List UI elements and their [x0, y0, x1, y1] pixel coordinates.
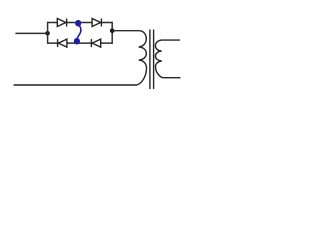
node right bridge junction: [110, 28, 115, 33]
wire input lead left: [15, 32, 47, 34]
wire bottom rail: [48, 42, 113, 44]
wire right vertical of bridge: [111, 22, 113, 44]
wire bottom return rail: [14, 84, 138, 86]
diode D1 top-left (pointing right): [57, 19, 66, 27]
transformer T1 primary winding: [137, 31, 147, 85]
diode D4 bottom-right (pointing left): [91, 39, 100, 47]
diode D2 top-right (pointing right): [92, 19, 101, 27]
wire left vertical of bridge: [47, 22, 49, 44]
diode D3 bottom-left (pointing left): [58, 39, 67, 47]
transformer T1 secondary winding: [155, 40, 180, 78]
wire output to transformer primary: [112, 30, 139, 32]
wire blue link between bridge midpoints: [77, 26, 81, 39]
transformer T1 core line left: [149, 30, 151, 90]
node blue top junction: [75, 20, 81, 27]
node blue bottom junction: [74, 38, 80, 45]
wire top rail: [48, 22, 113, 24]
node left bridge junction: [45, 31, 50, 36]
transformer T1 core line right: [153, 30, 155, 90]
